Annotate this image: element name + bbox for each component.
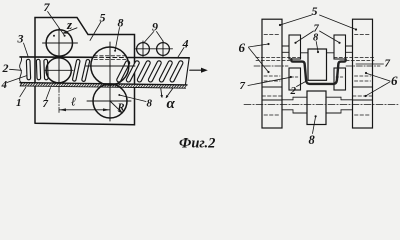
dot 8-bottom: [315, 115, 317, 117]
svg-text:8: 8: [309, 133, 316, 147]
dot 6-left lower: [267, 71, 269, 73]
dot 6-left upper: [267, 43, 269, 45]
svg-text:7: 7: [44, 0, 51, 14]
dot 6-right lower: [364, 95, 366, 97]
strip hidden dashed line lower (inside big roll): [94, 58, 127, 60]
bottom shaft right step: [340, 97, 342, 113]
dimension l extension line: [58, 87, 60, 113]
top shaft line left b: [282, 51, 289, 53]
svg-text:Фиг.2: Фиг.2: [179, 136, 215, 151]
right column dashed line top: [355, 34, 371, 36]
bottom shaft right narrow a: [341, 99, 353, 101]
strip plane dashed row upper right: [334, 57, 374, 59]
left column dashed mid rows: [264, 75, 280, 77]
tongue shaft line right: [327, 52, 335, 54]
bottom shaft left narrow b: [282, 109, 293, 111]
strip bottom line / band top: [20, 83, 187, 85]
bottom shaft right wide a: [326, 96, 341, 98]
svg-text:R: R: [117, 103, 125, 114]
bottom roll block: [307, 91, 326, 125]
roller pair centerline vertical x59: [58, 29, 60, 85]
svg-text:9: 9: [152, 20, 158, 34]
slot (right slanted) 1: [126, 60, 140, 83]
strip top line: [20, 56, 92, 58]
lower collar left: [289, 68, 301, 90]
strip plane dashed row upper left: [256, 57, 302, 59]
svg-text:7: 7: [385, 58, 391, 70]
lower collar right dashed: [336, 76, 344, 78]
upper collar left: [289, 35, 301, 59]
bottom shaft right narrow b: [341, 109, 353, 111]
frame box (stand housing, left figure): [35, 18, 135, 125]
big roll horizontal centerline: [86, 65, 135, 67]
bottom shaft left step: [292, 97, 294, 113]
small roll 9b vertical centerline: [162, 41, 164, 57]
top shaft line left a: [282, 45, 289, 47]
svg-text:6: 6: [239, 40, 246, 55]
strip left break squiggle: [20, 57, 22, 86]
slot (right slanted) 3: [148, 60, 162, 83]
dot 6-right upper: [365, 72, 367, 74]
dot 8-top: [317, 51, 319, 53]
slot (vertical) 3: [44, 59, 48, 80]
svg-text:6: 6: [391, 73, 398, 88]
strip hidden dashed line upper (inside big roll): [94, 55, 127, 57]
right column dashed line bottom: [355, 114, 371, 116]
bottom roll R: [93, 84, 127, 118]
slot (right slanted) 5: [169, 60, 183, 83]
svg-text:ℓ: ℓ: [71, 95, 76, 109]
svg-text:5: 5: [312, 4, 318, 18]
slot (vertical) 2: [36, 59, 40, 80]
left column dashed split: [262, 95, 282, 97]
side roll axis dash-dot left: [254, 65, 288, 67]
slot (mid slanted) 5: [82, 59, 90, 82]
svg-text:4: 4: [182, 37, 189, 51]
roller C1 horizontal centerline: [43, 42, 78, 44]
small roll 9b: [157, 43, 170, 56]
slot (right slanted) 2: [137, 60, 151, 83]
svg-text:α: α: [167, 96, 176, 112]
small roll 9a: [137, 43, 150, 56]
bottom roll horizontal centerline: [87, 100, 131, 102]
top tongue block: [308, 49, 327, 80]
strip right end edge: [185, 58, 189, 85]
right chock column: [353, 19, 373, 128]
svg-text:7: 7: [43, 98, 49, 110]
slot (right slanted) 4: [159, 60, 173, 83]
strip plane dashed row lower right: [346, 59, 374, 61]
dot 7-top right: [338, 42, 340, 44]
svg-text:2: 2: [2, 61, 9, 75]
svg-text:2: 2: [290, 85, 297, 97]
bottom shaft left wide a: [293, 96, 307, 98]
bottom axis dash-dot: [244, 104, 398, 106]
strip plane dashed row lower left: [256, 59, 290, 61]
lower collar left dashed: [291, 76, 299, 78]
right column dashed mid rows: [355, 75, 371, 77]
hat profile strip 2: [291, 59, 345, 84]
top shaft line right a: [346, 45, 353, 47]
slot (vertical) 1: [26, 59, 30, 80]
left column dashed line bottom: [264, 114, 280, 116]
dimension l line with arrows: [59, 109, 109, 111]
dot 7-top left: [294, 42, 296, 44]
small rolls 9 horizontal centerline: [135, 48, 173, 50]
left column lower solid line: [262, 99, 282, 101]
left chock column: [262, 19, 282, 128]
svg-text:7: 7: [240, 80, 246, 92]
band bottom line: [20, 86, 186, 88]
svg-text:8: 8: [147, 98, 153, 110]
bottom shaft left wide b: [293, 112, 307, 114]
bottom shaft left narrow a: [282, 99, 293, 101]
slot (right slanted) 0: [116, 60, 130, 83]
strip hatch band (support bar): [20, 83, 187, 89]
upper small roller C1: [46, 30, 72, 56]
small roll 9a vertical centerline: [142, 41, 144, 57]
angle alpha mark: [161, 89, 162, 98]
slot (mid slanted) 4: [72, 59, 80, 81]
exit arrow: [190, 69, 202, 71]
svg-text:3: 3: [17, 32, 24, 46]
radius R arrow: [110, 101, 122, 112]
big top roll: [91, 47, 129, 85]
left column split solid line: [262, 86, 282, 88]
right column dashed split: [353, 95, 373, 97]
big roll vertical centerline x110: [109, 42, 111, 121]
right column split solid line: [353, 86, 373, 88]
bolt dot right top: [355, 28, 357, 30]
roller C2 horizontal centerline: [45, 69, 73, 71]
upper collar right: [334, 35, 346, 59]
left column dashed line top: [264, 34, 280, 36]
right column lower solid line: [353, 99, 373, 101]
svg-text:1: 1: [16, 97, 22, 109]
tongue shaft line left: [301, 52, 309, 54]
svg-text:4: 4: [1, 79, 8, 91]
bolt dot left top: [279, 24, 281, 26]
side roll axis dash-dot right: [346, 65, 380, 67]
lower small roller C2: [46, 58, 71, 83]
lower collar right: [334, 68, 346, 90]
top shaft line right b: [346, 51, 353, 53]
bottom shaft right wide b: [326, 112, 341, 114]
svg-text:8: 8: [118, 16, 124, 30]
